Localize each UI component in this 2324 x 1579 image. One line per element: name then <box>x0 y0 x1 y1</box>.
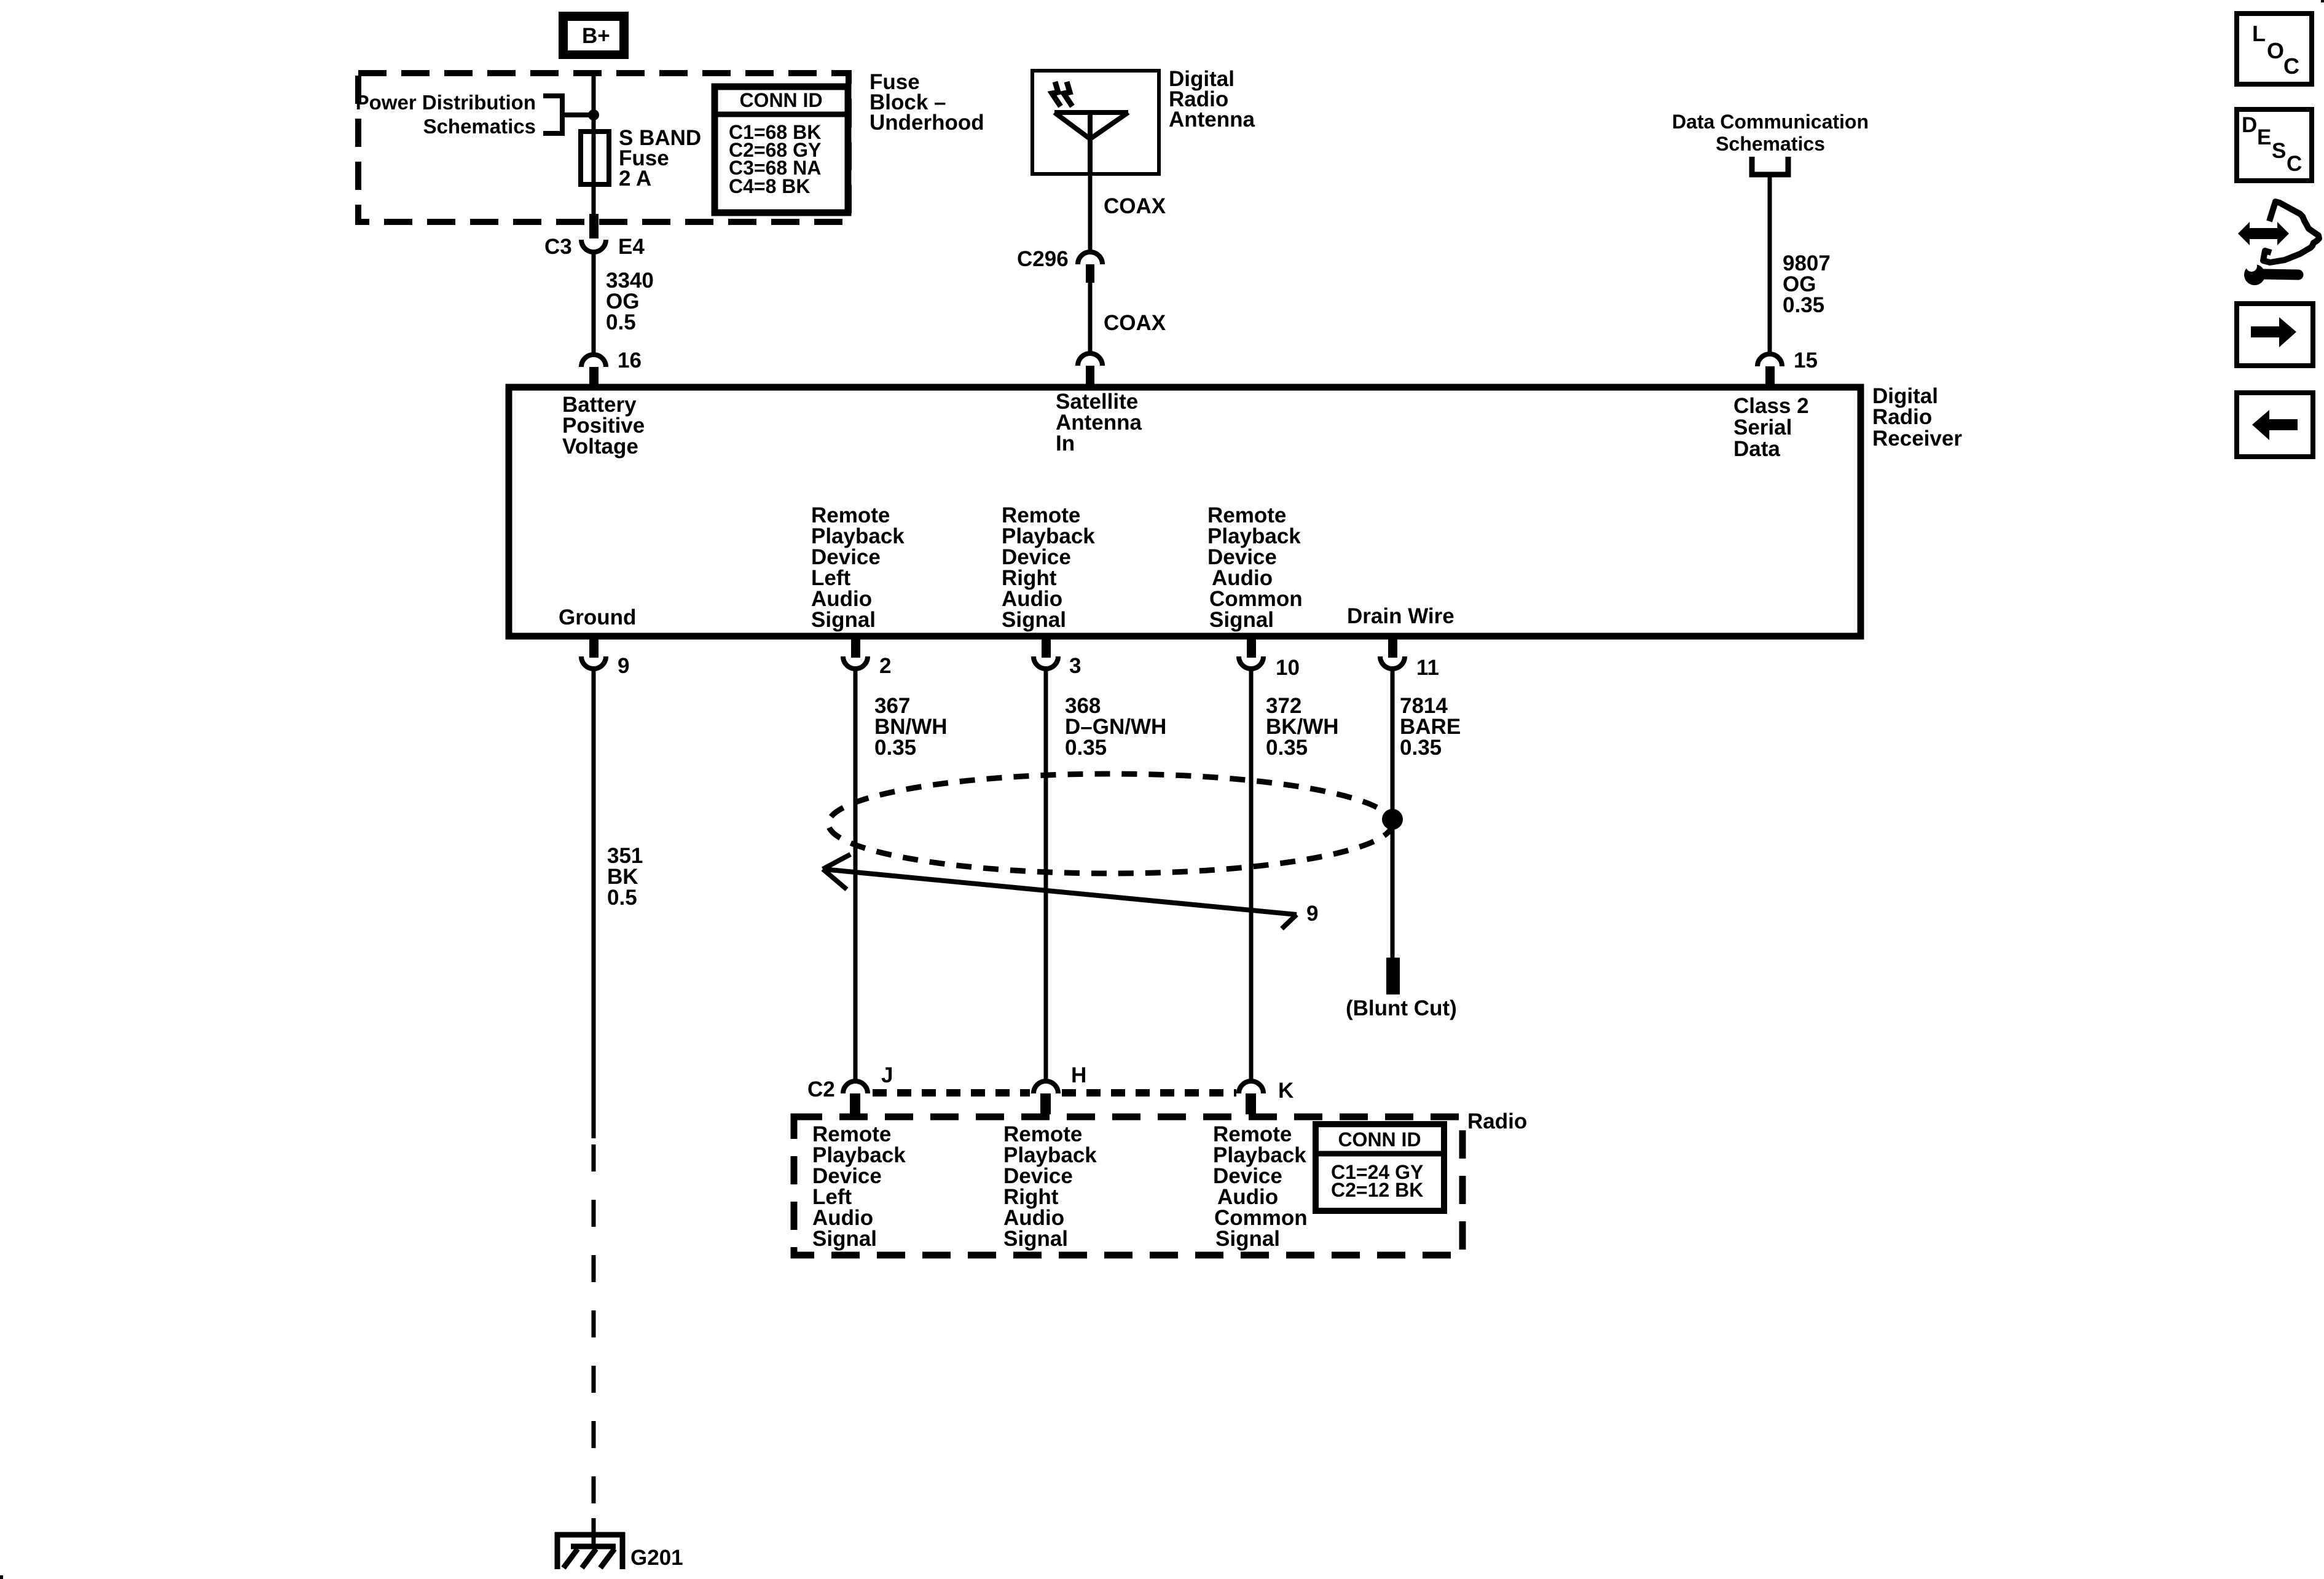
connector C3 / E4 <box>544 214 645 259</box>
svg-text:C: C <box>2287 152 2302 176</box>
svg-text:Radio: Radio <box>1872 405 1932 429</box>
antenna symbol <box>1054 112 1128 174</box>
ground G201 symbol <box>555 1532 683 1570</box>
svg-text:B+: B+ <box>582 24 610 48</box>
svg-text:E4: E4 <box>618 235 645 259</box>
svg-text:Underhood: Underhood <box>870 111 984 135</box>
junction node on B+ feed <box>588 109 599 120</box>
svg-text:C4=8 BK: C4=8 BK <box>729 175 811 197</box>
svg-text:0.35: 0.35 <box>1266 736 1308 760</box>
svg-text:Ground: Ground <box>559 605 636 629</box>
wire 7814 BARE 0.35 drain wire <box>1392 669 1461 958</box>
svg-text:Data: Data <box>1733 437 1780 461</box>
svg-text:Signal: Signal <box>1002 608 1066 632</box>
svg-text:Antenna: Antenna <box>1169 108 1255 132</box>
label Digital Radio Receiver <box>1872 384 1962 451</box>
shield ellipse around audio signal wires <box>828 774 1392 873</box>
pin 11 connector <box>1380 639 1439 680</box>
svg-text:11: 11 <box>1416 656 1439 680</box>
radio dashed box <box>794 1117 1462 1255</box>
fuse F1 S BAND 2A <box>581 126 701 216</box>
svg-text:C2: C2 <box>807 1077 835 1101</box>
wire B+ to fuse <box>592 70 596 134</box>
off-page bracket data communication <box>1752 157 1788 175</box>
svg-text:Signal: Signal <box>812 1227 877 1251</box>
wrench <box>2244 264 2265 285</box>
connector C2 row at radio: pin J <box>843 1063 893 1114</box>
svg-text:L: L <box>2252 21 2266 46</box>
icon forward arrow <box>2237 304 2313 366</box>
icon back arrow <box>2237 393 2313 457</box>
pin 10 connector <box>1239 639 1300 680</box>
svg-text:Schematics: Schematics <box>423 115 536 138</box>
svg-text:H: H <box>1071 1063 1086 1087</box>
page corner tick bottom-left <box>0 1575 3 1579</box>
svg-text:Signal: Signal <box>1215 1227 1280 1251</box>
B+ battery feed symbol <box>559 12 629 59</box>
icon DESC <box>2237 109 2312 181</box>
svg-text:9: 9 <box>618 654 629 678</box>
svg-text:2: 2 <box>879 654 891 678</box>
svg-text:Receiver: Receiver <box>1872 427 1962 451</box>
page corner tick top-right <box>2321 0 2324 2</box>
svg-text:Signal: Signal <box>1209 608 1274 632</box>
CONN ID table fuse block <box>715 87 848 213</box>
svg-text:Signal: Signal <box>811 608 876 632</box>
pin K <box>1239 1079 1294 1114</box>
svg-text:Data Communication: Data Communication <box>1672 111 1869 133</box>
svg-text:Serial: Serial <box>1733 415 1792 439</box>
label Fuse Block - Underhood <box>870 70 984 135</box>
wire 9807 OG 0.35 <box>1770 177 1831 355</box>
shield to ground arrow 9 <box>823 854 1297 929</box>
svg-text:Voltage: Voltage <box>562 435 638 459</box>
svg-text:J: J <box>881 1063 893 1087</box>
coax wire antenna to C296 <box>1088 174 1093 253</box>
svg-text:Schematics: Schematics <box>1716 133 1825 155</box>
wire 368 D-GN/WH 0.35 <box>1046 669 1166 1082</box>
svg-text:In: In <box>1056 431 1075 455</box>
digital radio antenna box <box>1032 71 1159 174</box>
pin 3 connector <box>1034 639 1081 678</box>
label Power Distribution Schematics <box>356 91 536 138</box>
svg-text:10: 10 <box>1276 656 1300 680</box>
label Data Communication Schematics <box>1672 111 1869 155</box>
wire 3340 OG 0.5 <box>594 252 654 355</box>
radio pin labels <box>812 1122 1308 1251</box>
svg-text:Radio: Radio <box>1467 1109 1527 1133</box>
pin 2 connector <box>843 639 891 678</box>
harness outline <box>2263 202 2319 262</box>
icon schematic reference (arrow + outline + wrench) <box>2238 202 2319 285</box>
svg-text:C296: C296 <box>1017 247 1069 271</box>
svg-text:Class 2: Class 2 <box>1733 394 1809 418</box>
blunt cut terminal <box>1386 958 1400 994</box>
svg-text:Power Distribution: Power Distribution <box>356 91 536 114</box>
svg-text:C: C <box>2283 53 2299 79</box>
svg-text:COAX: COAX <box>1104 194 1166 218</box>
digital radio receiver U1 box <box>509 387 1861 636</box>
pin 16 connector at receiver <box>581 348 642 387</box>
coax wire C296 to receiver <box>1088 283 1093 355</box>
svg-text:2 A: 2 A <box>619 167 651 191</box>
svg-text:K: K <box>1278 1079 1294 1103</box>
pin 15 connector at receiver <box>1757 348 1818 387</box>
satellite antenna in pin connector <box>1078 353 1102 387</box>
svg-text:CONN ID: CONN ID <box>1338 1128 1421 1151</box>
svg-text:0.35: 0.35 <box>874 736 916 760</box>
svg-text:O: O <box>2267 38 2284 63</box>
double arrow <box>2238 222 2289 245</box>
wire 351 BK 0.5 ground wire <box>594 669 643 1548</box>
svg-text:Drain Wire: Drain Wire <box>1347 604 1454 628</box>
svg-text:S: S <box>2272 139 2286 163</box>
svg-text:G201: G201 <box>630 1546 683 1570</box>
svg-text:C3: C3 <box>544 235 572 259</box>
svg-text:CONN ID: CONN ID <box>739 89 822 111</box>
svg-text:COAX: COAX <box>1104 311 1166 335</box>
svg-text:(Blunt Cut): (Blunt Cut) <box>1346 996 1457 1020</box>
pin 9 connector <box>581 639 629 678</box>
fuse block - underhood dashed box <box>358 73 849 222</box>
label Digital Radio Antenna <box>1169 67 1255 132</box>
wire 367 BN/WH 0.35 <box>855 669 948 1082</box>
svg-text:15: 15 <box>1794 348 1818 372</box>
svg-text:0.5: 0.5 <box>606 310 636 334</box>
svg-text:0.35: 0.35 <box>1783 293 1824 317</box>
svg-text:3: 3 <box>1069 654 1081 678</box>
svg-text:D: D <box>2242 113 2257 137</box>
junction dot drain wire to shield <box>1382 809 1403 830</box>
svg-text:0.35: 0.35 <box>1400 736 1442 760</box>
wire 372 BK/WH 0.35 <box>1251 669 1339 1082</box>
svg-text:0.5: 0.5 <box>607 886 637 910</box>
svg-text:0.35: 0.35 <box>1065 736 1107 760</box>
icon LOC <box>2237 14 2312 84</box>
svg-text:16: 16 <box>618 348 642 372</box>
dashed connector line C2 row <box>873 1089 1236 1097</box>
svg-text:Signal: Signal <box>1003 1227 1068 1251</box>
connector C296 <box>1017 247 1102 283</box>
svg-text:9: 9 <box>1306 902 1318 926</box>
svg-text:E: E <box>2257 125 2271 149</box>
pin H <box>1034 1063 1086 1114</box>
RF marks <box>1052 82 1072 106</box>
receiver pin labels <box>559 390 1809 632</box>
CONN ID table radio <box>1316 1124 1444 1211</box>
svg-text:C2=12 BK: C2=12 BK <box>1331 1179 1423 1201</box>
bracket to Power Distribution Schematics <box>543 96 590 133</box>
